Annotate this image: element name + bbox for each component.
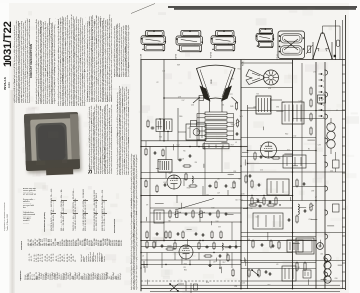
resistor R57 — [227, 254, 229, 263]
resistor R63 — [251, 180, 253, 189]
CRT screen arc — [197, 65, 236, 99]
resistor R45 — [169, 231, 171, 240]
svg-text:R55: R55 — [238, 68, 241, 70]
svg-text:R10: R10 — [285, 133, 288, 135]
svg-text:V64: V64 — [234, 286, 237, 288]
capacitor C50 — [160, 245, 164, 248]
svg-text:L31: L31 — [162, 71, 165, 73]
svg-text:L2: L2 — [336, 110, 338, 112]
wire rail y200 right — [241, 200, 345, 202]
label V6 — [243, 62, 245, 66]
wire LOPT links — [248, 100, 283, 108]
svg-text:R11: R11 — [188, 128, 191, 130]
capacitor C33 — [224, 185, 228, 188]
wire bus D vertical — [315, 62, 317, 289]
sound take-off box — [186, 124, 206, 140]
svg-text:L34: L34 — [247, 239, 250, 241]
label V1 — [141, 54, 143, 60]
svg-text:R6: R6 — [183, 150, 185, 152]
svg-text:C13: C13 — [235, 200, 238, 202]
capacitor C24 — [153, 152, 157, 155]
wire rail y260 right — [241, 260, 345, 262]
wire rail y150 right — [248, 150, 317, 152]
svg-text:V10: V10 — [216, 221, 219, 223]
svg-text:L18: L18 — [299, 101, 302, 103]
capacitor C54 — [228, 246, 232, 249]
svg-text:2: 2 — [323, 81, 324, 83]
wire stub sync — [183, 179, 185, 187]
svg-text:R77: R77 — [230, 94, 233, 96]
wire bottom secondary rail — [141, 284, 340, 286]
svg-text:R40: R40 — [184, 264, 187, 266]
wire sync drops — [177, 186, 228, 203]
flywheel discriminator box — [283, 155, 306, 168]
svg-text:C12: C12 — [177, 145, 180, 147]
wire heater bus vertical — [324, 62, 326, 289]
capacitor C72 — [264, 271, 268, 274]
wire rail y262 right — [241, 261, 316, 263]
capacitor C30 — [163, 184, 167, 187]
wire rail y260 — [141, 259, 241, 261]
transformer T1 IF — [156, 118, 172, 132]
wire rail y213 — [150, 212, 241, 214]
wire rail y178 — [141, 178, 241, 180]
resistor R30 — [145, 180, 147, 189]
wire x164 drop — [163, 60, 165, 141]
svg-text:L60: L60 — [250, 208, 253, 210]
capacitor C52 — [206, 245, 209, 249]
wire video drops — [147, 253, 232, 269]
tuner switch S1 — [169, 283, 184, 292]
labels terminal — [323, 75, 324, 119]
wire bus B vertical — [247, 105, 249, 289]
label V5 — [277, 54, 279, 60]
resistor R20 — [145, 148, 147, 157]
fold line — [131, 4, 155, 14]
svg-text:V77: V77 — [287, 150, 290, 152]
svg-text:1: 1 — [323, 75, 324, 77]
dropper top link — [323, 26, 341, 60]
resistor R56 — [204, 255, 213, 257]
svg-text:C54: C54 — [242, 283, 245, 285]
CRT neck — [210, 99, 223, 112]
mains panel — [282, 266, 296, 281]
wire HT top rail — [141, 59, 345, 61]
svg-text:L80: L80 — [217, 178, 220, 180]
cross junction — [141, 261, 149, 268]
on-off switch S2 — [251, 269, 259, 276]
wire rail y156 right — [241, 156, 293, 158]
fuse FS1 — [336, 40, 339, 47]
capacitor C66 — [287, 219, 291, 222]
svg-text:6: 6 — [323, 105, 324, 107]
parts cluster boost — [249, 204, 281, 208]
wire rail y232 right — [241, 232, 345, 234]
transformer T4 sound — [158, 160, 172, 173]
wire rail y240 — [141, 240, 316, 242]
capacitor C17 — [235, 133, 239, 136]
wire rail y264 — [141, 264, 241, 266]
svg-text:V33: V33 — [276, 107, 279, 109]
wire rail y268 right — [241, 268, 316, 270]
svg-text:V49: V49 — [311, 190, 314, 192]
wire rail y118 right — [293, 118, 326, 120]
capacitor C55 — [218, 255, 222, 258]
capacitor C26 — [179, 158, 182, 162]
resistor R16 focus — [235, 102, 237, 111]
wire field drops — [164, 208, 232, 241]
wire rail y195 — [141, 195, 293, 197]
resistor R60 — [254, 152, 256, 161]
transformer T3 LOPT — [256, 96, 271, 114]
svg-text:R61: R61 — [184, 270, 187, 272]
svg-text:5: 5 — [323, 99, 324, 101]
heater chain bumps — [324, 69, 327, 277]
svg-text:V17: V17 — [222, 262, 225, 264]
svg-text:V9: V9 — [146, 205, 148, 207]
mains dropper triangle — [312, 32, 336, 59]
wire rail y87 right — [241, 87, 293, 89]
resistor R35 — [233, 181, 235, 190]
mains rectifier MR1 — [287, 240, 303, 252]
wire right border rail — [344, 15, 346, 290]
resistor R80 — [165, 231, 222, 251]
grid box left — [191, 121, 198, 127]
wire IF verticals — [146, 132, 186, 147]
smoothing electrolytic C70 — [317, 243, 324, 250]
svg-text:V69: V69 — [177, 64, 180, 66]
capacitor C64 — [302, 183, 306, 186]
capacitor C68 — [260, 244, 264, 247]
wire dashed chassis link — [141, 280, 240, 282]
resistor R66 — [296, 215, 298, 224]
label CRT type — [211, 79, 213, 84]
capacitor C27 — [188, 155, 192, 158]
choke L14 loops — [324, 254, 331, 283]
wire rail y110 — [241, 110, 345, 112]
svg-text:C80: C80 — [335, 278, 338, 280]
resistor R21 — [162, 149, 164, 158]
wire bus A vertical — [240, 60, 242, 289]
efficiency diode box — [253, 213, 283, 229]
svg-text:R12: R12 — [256, 198, 259, 200]
svg-text:L44: L44 — [253, 106, 256, 108]
svg-text:PCF80: PCF80 — [176, 54, 178, 60]
svg-text:3: 3 — [323, 87, 324, 89]
wire rail y186 right — [293, 186, 326, 188]
resistor chain right — [310, 87, 312, 136]
valve base V4 EB91 — [256, 28, 275, 47]
svg-text:L57: L57 — [182, 100, 185, 102]
top edge bar — [168, 7, 357, 9]
small verts bottom — [186, 281, 198, 293]
valve V12 PCL85 field — [261, 142, 277, 158]
svg-text:C2: C2 — [156, 82, 158, 84]
wire rail y140 — [141, 140, 206, 142]
pot VR5 line hold — [309, 203, 314, 212]
valve base V3 PCF80 — [211, 30, 236, 51]
svg-text:C79: C79 — [318, 144, 321, 146]
pot VR3 v-hold — [198, 211, 205, 218]
svg-text:V17: V17 — [260, 145, 263, 147]
svg-text:L65: L65 — [320, 254, 323, 256]
capacitor C74 — [271, 245, 275, 248]
boost capacitor C65 — [303, 210, 307, 213]
valve V11 video amp — [179, 245, 193, 259]
svg-text:V33: V33 — [240, 116, 243, 118]
svg-text:R49: R49 — [230, 106, 233, 108]
capacitor C80 — [176, 233, 238, 249]
svg-text:R17: R17 — [238, 178, 241, 180]
resistor R69 — [270, 240, 272, 249]
parts cluster line osc — [251, 195, 277, 206]
wire chassis bottom rail — [141, 288, 345, 290]
wire rail y236 right — [241, 236, 316, 238]
svg-text:R18: R18 — [211, 207, 214, 209]
svg-text:L11: L11 — [297, 267, 300, 269]
double box PSU — [296, 238, 314, 254]
resistor R44 — [146, 231, 148, 240]
capacitor C41 — [208, 213, 212, 216]
diagonal wire W1 — [175, 199, 214, 211]
svg-text:C79: C79 — [178, 97, 181, 99]
wire x150 drop — [149, 147, 151, 241]
svg-text:V36: V36 — [158, 161, 161, 163]
valve V8 sound output — [167, 175, 181, 189]
resistor R64 — [296, 179, 298, 188]
resistor R50 — [146, 241, 148, 250]
width coil L12 — [298, 204, 299, 214]
svg-text:C67: C67 — [206, 194, 209, 196]
wire grid feed rail — [164, 97, 204, 99]
svg-text:V7: V7 — [315, 197, 317, 199]
wire rail y252 — [141, 252, 293, 254]
resistor R40 — [169, 210, 171, 219]
resistor R46 — [182, 231, 184, 240]
wire x178 drop — [177, 108, 179, 147]
svg-text:C28: C28 — [181, 159, 184, 161]
svg-text:R5: R5 — [145, 180, 147, 182]
capacitor C44 — [155, 233, 159, 236]
wire left border rail — [140, 60, 142, 292]
wire x199 drop — [198, 101, 200, 141]
svg-text:R60: R60 — [179, 116, 182, 118]
svg-text:R3: R3 — [257, 93, 259, 95]
coil L8 — [192, 176, 193, 183]
svg-text:PCC89: PCC89 — [141, 54, 143, 60]
svg-text:V57: V57 — [218, 227, 221, 229]
wire rail y137 right — [241, 137, 316, 139]
CRT stack left bus — [196, 113, 198, 146]
label V2 — [176, 54, 178, 60]
stray wire stubs — [145, 111, 342, 286]
capacitor C45 — [194, 233, 198, 236]
svg-text:L50: L50 — [293, 136, 296, 138]
svg-text:C58: C58 — [233, 171, 236, 173]
svg-text:V4: V4 — [276, 264, 278, 266]
resistor R47 — [211, 231, 213, 240]
svg-text:R8: R8 — [168, 220, 170, 222]
svg-text:C66: C66 — [242, 194, 245, 196]
resistor R41 — [192, 210, 194, 219]
wire right inner rail — [341, 20, 343, 289]
resistor R76 — [248, 269, 260, 278]
svg-text:C50: C50 — [330, 170, 333, 172]
capacitor C20 — [150, 127, 154, 130]
wire rail y163 right — [248, 163, 317, 165]
scan coils plug — [303, 270, 311, 278]
wire HT rail right stub — [335, 20, 337, 60]
LOPT overwind box — [282, 102, 304, 124]
resistor R34 — [215, 181, 217, 190]
svg-text:L3: L3 — [142, 256, 144, 258]
svg-text:R9: R9 — [184, 267, 186, 269]
svg-text:L67: L67 — [213, 262, 216, 264]
valve base V5 PCL82 — [278, 31, 305, 59]
svg-text:R40: R40 — [233, 183, 236, 185]
capacitor C42 — [224, 213, 228, 216]
svg-text:L27: L27 — [217, 193, 220, 195]
resistor R54 — [198, 242, 200, 251]
scan coil loops — [327, 118, 335, 154]
resistor R24 — [185, 173, 187, 182]
svg-text:L31: L31 — [221, 105, 224, 107]
wire x302 drop — [301, 63, 303, 201]
wire drops bottom — [156, 241, 236, 265]
svg-text:V43: V43 — [267, 285, 270, 287]
resistor R74 — [278, 241, 280, 250]
svg-text:R36: R36 — [187, 187, 190, 189]
pot VR2 height — [174, 211, 181, 218]
valve base V1 PCC89 — [141, 30, 166, 51]
border ticks — [342, 65, 345, 281]
CRT stack right bus — [234, 113, 242, 139]
wire rail y222 — [141, 221, 241, 223]
box right small — [318, 95, 326, 103]
svg-text:R16: R16 — [206, 282, 209, 284]
svg-text:PCF80: PCF80 — [211, 52, 213, 58]
capacitor C40 — [184, 213, 188, 216]
svg-text:7: 7 — [323, 111, 324, 113]
peaking coil L3 — [198, 96, 203, 101]
resistor R51 — [153, 241, 155, 250]
capacitor C76 — [268, 273, 272, 276]
resistor R59 — [232, 269, 234, 278]
resistor R61 — [272, 157, 281, 159]
svg-text:L45: L45 — [282, 102, 285, 104]
bottom dots — [165, 240, 214, 265]
svg-text:8: 8 — [323, 117, 324, 119]
terminal strip dots — [319, 73, 323, 117]
capacitor C63 — [257, 184, 261, 187]
right small boxes — [333, 152, 340, 212]
resistor R23 — [183, 165, 192, 167]
wire rail y63 right — [241, 62, 293, 64]
capacitor C59 — [208, 264, 212, 267]
coil L10 — [222, 243, 223, 250]
wire rail y281 right — [241, 280, 345, 282]
CRT electrode stack — [197, 112, 234, 141]
valve V6 base spider — [246, 70, 279, 86]
svg-text:C51: C51 — [248, 274, 251, 276]
capacitor C32 — [209, 184, 212, 188]
thermistor TH1 — [306, 45, 313, 54]
capacitor C60 — [259, 156, 263, 159]
valve base V2 PCF80 — [176, 30, 203, 52]
CRT inner cone — [200, 70, 232, 98]
svg-text:V16: V16 — [159, 136, 162, 138]
resistor R33 — [189, 185, 198, 187]
wire rail y208 — [150, 207, 293, 209]
component ref labels — [142, 64, 338, 288]
label V3 — [211, 52, 213, 58]
deflection yoke coils — [193, 86, 238, 104]
svg-text:C12: C12 — [308, 219, 311, 221]
svg-text:4: 4 — [323, 93, 324, 95]
resistor R31 — [156, 185, 158, 194]
svg-text:R9: R9 — [169, 173, 171, 175]
resistor R52 — [166, 248, 175, 250]
CRT base box — [203, 144, 229, 149]
transformer T5 blocking — [154, 210, 164, 223]
wire bus C vertical — [292, 60, 294, 289]
dropper resistor R70 — [296, 262, 306, 272]
svg-text:C15: C15 — [328, 124, 331, 126]
wire rail y172 right — [241, 171, 345, 173]
svg-text:L5: L5 — [235, 142, 237, 144]
wire bottom third rail — [150, 290, 340, 292]
svg-text:C50: C50 — [191, 105, 194, 107]
capacitor C62 — [248, 175, 252, 178]
svg-text:L10: L10 — [163, 182, 166, 184]
resistor R72 — [245, 163, 248, 184]
wire sound links — [166, 147, 222, 196]
svg-text:R17: R17 — [231, 144, 234, 146]
resistor R55 — [213, 242, 215, 251]
svg-text:V33: V33 — [239, 200, 242, 202]
svg-text:R6: R6 — [195, 162, 197, 164]
line osc transformer T6 — [267, 179, 289, 195]
svg-text:V14: V14 — [156, 234, 159, 236]
resistor R18 — [147, 120, 149, 129]
wire rail y146 — [141, 146, 248, 148]
resistor R42 — [217, 210, 219, 219]
wire rail y246 — [141, 246, 241, 248]
svg-text:R36: R36 — [231, 79, 234, 81]
svg-text:C53: C53 — [230, 124, 233, 126]
svg-text:V58: V58 — [231, 187, 234, 189]
svg-text:R1: R1 — [308, 149, 310, 151]
resistor R68 — [252, 240, 254, 249]
wire rail y166 — [141, 172, 241, 174]
pot VR1 brightness — [236, 119, 241, 128]
